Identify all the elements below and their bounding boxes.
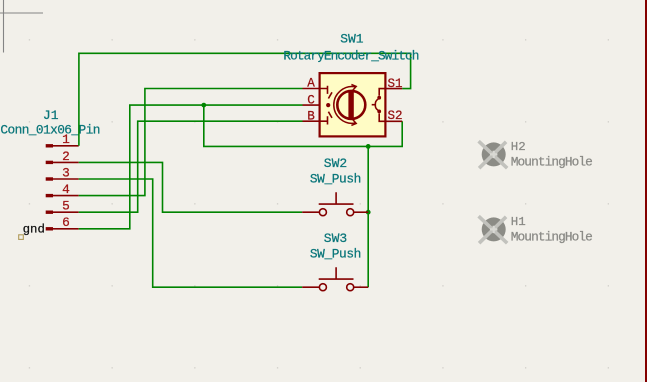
junction at SW2 right <box>366 210 371 215</box>
SW3 right contact <box>347 284 354 291</box>
svg-text:Conn_01x06_Pin: Conn_01x06_Pin <box>0 123 100 138</box>
svg-text:S1: S1 <box>388 77 403 91</box>
SW2 right contact <box>347 209 354 216</box>
svg-text:H2: H2 <box>511 140 526 154</box>
connector J1 pin 1 <box>46 132 79 147</box>
svg-text:SW1: SW1 <box>340 32 364 47</box>
SW3 left contact <box>319 284 326 291</box>
svg-text:gnd: gnd <box>23 222 45 236</box>
SW1 rotor circle <box>337 91 365 119</box>
connector J1 pin 2 <box>46 149 79 164</box>
SW2 actuator <box>319 192 354 204</box>
SW1 switch contacts right <box>372 89 386 122</box>
push button SW3 <box>302 231 368 291</box>
wire pin1 to S1 <box>79 53 411 146</box>
svg-text:1: 1 <box>62 132 70 147</box>
SW1 pin C <box>303 104 320 106</box>
svg-text:S2: S2 <box>388 109 403 123</box>
SW1 rotation arc <box>334 87 356 124</box>
SW1 pin S1 <box>385 88 402 90</box>
svg-text:C: C <box>307 93 315 107</box>
junction at S2 branch <box>366 144 371 149</box>
SW2 pin 2 <box>354 211 368 213</box>
svg-text:A: A <box>307 77 315 91</box>
SW2 pin 1 <box>302 211 319 213</box>
svg-text:B: B <box>307 110 315 124</box>
svg-text:SW3: SW3 <box>324 231 347 246</box>
SW3 pin 2 <box>354 286 368 288</box>
wire pin6 to encoder C <box>79 105 303 229</box>
wire pin4 to encoder A <box>79 89 303 196</box>
connector J1 pin 5 <box>46 199 79 214</box>
SW1 pin S2 <box>385 120 402 122</box>
sheet border <box>645 0 647 382</box>
SW3 actuator <box>319 267 354 279</box>
SW3 pin 1 <box>302 286 319 288</box>
svg-text:SW_Push: SW_Push <box>310 171 362 186</box>
svg-text:MountingHole: MountingHole <box>511 229 593 244</box>
wire C-junction to S2 <box>204 105 402 146</box>
wire pin3 to SW3 left <box>79 179 303 287</box>
svg-text:SW_Push: SW_Push <box>310 246 362 261</box>
connector J1 pin 3 <box>46 165 79 180</box>
svg-text:2: 2 <box>62 149 70 164</box>
SW1 switch contact dots <box>377 96 381 100</box>
svg-text:J1: J1 <box>43 108 59 123</box>
junction at C wire <box>201 103 206 108</box>
SW1 rotation arrows <box>351 85 356 126</box>
wire pin2 to SW2 left <box>79 162 303 212</box>
connector J1 pin 4 <box>46 182 79 197</box>
svg-text:6: 6 <box>62 215 70 230</box>
mounting hole H1 <box>479 215 593 245</box>
sheet origin crosshair <box>0 0 43 53</box>
connector J1 pin 6 <box>46 215 79 230</box>
mounting hole H2 <box>479 140 593 170</box>
wire pin5 to encoder B <box>79 121 303 212</box>
svg-text:3: 3 <box>62 165 70 180</box>
SW1 rotor slot bar <box>348 92 353 119</box>
svg-text:H1: H1 <box>511 215 526 229</box>
svg-text:MountingHole: MountingHole <box>511 154 593 169</box>
svg-text:RotaryEncoder_Switch: RotaryEncoder_Switch <box>283 49 419 64</box>
SW1 body <box>320 73 386 136</box>
wire junction to SW2/SW3 right <box>367 146 369 287</box>
svg-text:5: 5 <box>62 199 70 214</box>
net label gnd <box>19 222 45 239</box>
push button SW2 <box>302 156 368 216</box>
SW1 pin A <box>303 88 320 90</box>
SW2 left contact <box>319 209 326 216</box>
SW1 pin B <box>303 120 320 122</box>
svg-text:SW2: SW2 <box>324 156 347 171</box>
rotary encoder SW1 <box>283 32 419 137</box>
svg-text:4: 4 <box>62 182 70 197</box>
grid dots <box>29 39 609 368</box>
SW1 encoder contacts left <box>320 86 332 125</box>
SW1 pin C wiper dot <box>326 103 330 107</box>
